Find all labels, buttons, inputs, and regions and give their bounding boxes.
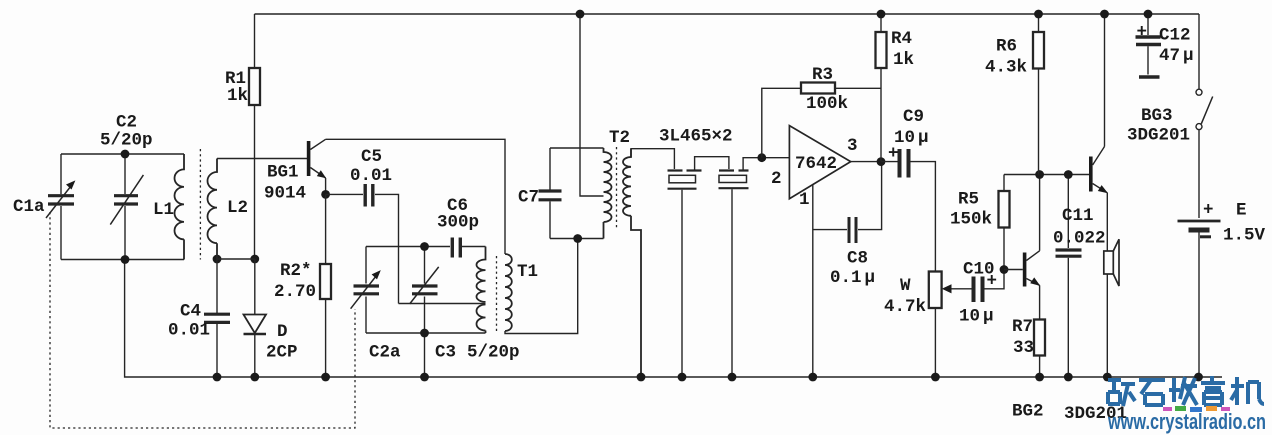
svg-text:0.01: 0.01 bbox=[168, 321, 210, 341]
wire: tank1 top bbox=[61, 153, 184, 155]
svg-text:3DG201: 3DG201 bbox=[1127, 126, 1190, 146]
node: amp output bbox=[877, 157, 886, 166]
svg-text:T2: T2 bbox=[609, 128, 630, 148]
node: loop bottom junction bbox=[573, 234, 582, 243]
node: filter2 ground bbox=[728, 373, 737, 382]
node: C11 ground bbox=[1064, 373, 1073, 382]
svg-text:0.1μ: 0.1μ bbox=[830, 268, 875, 288]
node: C3 top bbox=[420, 242, 429, 251]
svg-text:3L465×2: 3L465×2 bbox=[659, 127, 733, 147]
transformer T2 secondary bbox=[623, 149, 641, 377]
node: battery ground bbox=[1194, 373, 1203, 382]
svg-text:100k: 100k bbox=[806, 94, 848, 114]
svg-text:0.022: 0.022 bbox=[1053, 229, 1106, 249]
svg-text:+: + bbox=[1137, 23, 1148, 43]
svg-text:W: W bbox=[900, 276, 911, 296]
node: R5/C10/base junction bbox=[1000, 265, 1009, 274]
wire: T1 secondary bottom to C7 node bbox=[505, 239, 578, 334]
node: R4 top rail bbox=[877, 10, 886, 19]
node: R7 ground bbox=[1035, 373, 1044, 382]
ceramic filter 2 (3L465) bbox=[719, 171, 749, 378]
transformer T1 secondary bbox=[505, 254, 512, 331]
capacitor C6 300p bbox=[452, 238, 485, 258]
wire: top rail tap to T2 primary bbox=[580, 14, 604, 196]
svg-text:+: + bbox=[1203, 201, 1214, 221]
pin 3 wire: amp output bbox=[851, 161, 881, 163]
svg-text:+: + bbox=[888, 144, 899, 164]
svg-text:L2: L2 bbox=[227, 198, 248, 218]
svg-text:2: 2 bbox=[771, 169, 782, 189]
wire: T2 secondary top to filter 1 bbox=[631, 149, 674, 169]
svg-text:1k: 1k bbox=[893, 50, 914, 70]
node: C4 ground bbox=[213, 373, 222, 382]
svg-text:0.01: 0.01 bbox=[350, 166, 392, 186]
speaker bbox=[1104, 239, 1119, 377]
battery E 1.5V bbox=[1178, 221, 1221, 377]
resistor R3 100k with feedback wire bbox=[762, 83, 881, 158]
resistor R1 bbox=[249, 14, 260, 259]
resistor R4 1k bbox=[876, 14, 887, 162]
svg-text:R5: R5 bbox=[958, 190, 979, 210]
svg-text:4.3k: 4.3k bbox=[985, 58, 1027, 78]
svg-text:C7: C7 bbox=[518, 188, 539, 208]
wire: tank1 bottom bbox=[61, 259, 184, 261]
wire: filter1 out to filter2 in bbox=[695, 157, 729, 170]
node: W ground bbox=[931, 373, 940, 382]
svg-text:C3: C3 bbox=[435, 343, 456, 363]
svg-text:10μ: 10μ bbox=[959, 307, 994, 327]
capacitor C3 (trimmer 5/20p) bbox=[410, 247, 439, 378]
watermark char 1 (kuang) bbox=[1108, 380, 1135, 406]
node: C3 bottom bbox=[420, 329, 429, 338]
svg-text:C11: C11 bbox=[1062, 206, 1094, 226]
wire: filter2 out to amp input node bbox=[743, 158, 789, 170]
transformer T1 primary bbox=[477, 247, 486, 334]
capacitor C10 10u (electrolytic) bbox=[974, 270, 1005, 303]
node: C2 bottom bbox=[121, 255, 130, 264]
svg-text:3: 3 bbox=[847, 136, 858, 156]
node: amp input bbox=[757, 153, 766, 162]
wire: R5 top to BG3 base bbox=[1004, 174, 1089, 176]
transistor BG3 3DG201 bbox=[1089, 14, 1108, 251]
watermark char 5 (ji) bbox=[1231, 377, 1264, 405]
inductor L1 bbox=[175, 154, 185, 260]
svg-text:R6: R6 bbox=[996, 37, 1017, 57]
node: filter1 ground bbox=[678, 373, 687, 382]
capacitor C8 0.1u bbox=[813, 163, 882, 243]
capacitor C2a (variable) bbox=[351, 247, 381, 334]
ceramic filter 1 (3L465) bbox=[668, 171, 702, 378]
svg-text:C1a: C1a bbox=[13, 197, 45, 217]
svg-text:C2: C2 bbox=[116, 113, 137, 133]
svg-text:300p: 300p bbox=[437, 213, 479, 233]
wire: C7/T2 loop bottom bbox=[550, 238, 604, 240]
node: L2 bottom / R1 bottom junction bbox=[213, 255, 260, 264]
watermark tiny colored marks bbox=[1163, 406, 1230, 412]
node: R6/BG2 collector bbox=[1035, 170, 1044, 179]
inductor L2 bbox=[208, 159, 218, 260]
svg-text:C8: C8 bbox=[847, 249, 868, 269]
svg-text:BG1: BG1 bbox=[267, 163, 299, 183]
core: L1/L2 dashed bbox=[199, 149, 201, 260]
node: D ground bbox=[250, 373, 259, 382]
WATERMARK bbox=[1108, 376, 1264, 406]
svg-text:1: 1 bbox=[799, 190, 810, 210]
node: R6 top rail bbox=[1034, 10, 1043, 19]
transistor BG1 9014 bbox=[307, 139, 326, 194]
node: top rail T2 feed bbox=[576, 10, 585, 19]
svg-text:7642: 7642 bbox=[795, 154, 837, 174]
svg-text:4.7k: 4.7k bbox=[884, 297, 926, 317]
resistor R7 33 bbox=[1034, 320, 1045, 378]
svg-text:BG3: BG3 bbox=[1141, 106, 1173, 126]
svg-text:C5: C5 bbox=[361, 147, 382, 167]
svg-text:D: D bbox=[277, 322, 288, 342]
diode D 2CP bbox=[244, 259, 267, 377]
svg-text:E: E bbox=[1236, 201, 1247, 221]
wire: bottom ground rail bbox=[125, 260, 1222, 378]
node: BG1 emitter junction bbox=[321, 190, 330, 199]
dashed gang line C1a-C2a bbox=[50, 212, 355, 428]
node: C3 ground bbox=[420, 373, 429, 382]
wire: L2 bottom to diode node bbox=[217, 258, 255, 260]
svg-text:150k: 150k bbox=[950, 210, 992, 230]
node: C12 top rail bbox=[1144, 10, 1153, 19]
svg-text:9014: 9014 bbox=[264, 184, 306, 204]
wire: C5 tap into T1 bbox=[399, 303, 486, 305]
svg-text:5/20p: 5/20p bbox=[100, 131, 153, 151]
svg-text:C9: C9 bbox=[903, 107, 924, 127]
capacitor C12 47u (electrolytic) bbox=[1136, 14, 1162, 77]
wire: tank2 top rail bbox=[366, 246, 450, 248]
transformer T2 primary bbox=[604, 148, 612, 239]
resistor R2* bbox=[320, 194, 331, 377]
capacitor C9 10u (electrolytic) bbox=[881, 149, 935, 272]
svg-text:10μ: 10μ bbox=[894, 128, 929, 148]
svg-text:R2*: R2* bbox=[280, 261, 312, 281]
svg-text:33: 33 bbox=[1013, 338, 1034, 358]
op-amp U1 7642 bbox=[789, 126, 850, 199]
node: pin1 ground bbox=[808, 373, 817, 382]
svg-text:C12: C12 bbox=[1159, 26, 1191, 46]
resistor R6 4.3k bbox=[1033, 14, 1044, 175]
svg-text:2.70: 2.70 bbox=[274, 282, 316, 302]
capacitor C2 (trimmer 5/20p) bbox=[110, 154, 143, 260]
wire: top supply rail bbox=[255, 13, 1200, 15]
svg-text:R7: R7 bbox=[1012, 317, 1033, 337]
svg-text:R3: R3 bbox=[812, 65, 833, 85]
node: T2 secondary ground bbox=[637, 373, 646, 382]
watermark char 2 (shi) bbox=[1139, 380, 1165, 405]
svg-text:BG2: BG2 bbox=[1012, 402, 1044, 422]
potentiometer W 4.7k bbox=[929, 272, 972, 378]
node: speaker ground bbox=[1103, 373, 1112, 382]
node: BG3 collector rail bbox=[1100, 10, 1109, 19]
svg-text:+: + bbox=[987, 272, 998, 292]
svg-text:1.5V: 1.5V bbox=[1223, 226, 1266, 246]
watermark char 4 (yin) bbox=[1201, 376, 1225, 405]
svg-text:L1: L1 bbox=[153, 200, 174, 220]
svg-text:www.crystalradio.cn: www.crystalradio.cn bbox=[1107, 409, 1266, 434]
capacitor C5 0.01 bbox=[326, 184, 399, 304]
wire: tank2 bottom rail bbox=[366, 332, 486, 334]
wire: BG2 base bbox=[1004, 269, 1023, 271]
svg-text:2CP: 2CP bbox=[266, 343, 298, 363]
svg-text:5/20p: 5/20p bbox=[467, 343, 520, 363]
wire: base line L2 top to BG1 bbox=[217, 158, 307, 160]
svg-text:47μ: 47μ bbox=[1159, 46, 1194, 66]
capacitor C4 0.01 bbox=[204, 259, 230, 377]
watermark char 3 (shou) bbox=[1169, 377, 1197, 405]
capacitor C11 0.022 bbox=[1056, 175, 1082, 378]
wire: C7/T2 loop top bbox=[550, 147, 604, 149]
resistor R5 150k bbox=[999, 175, 1010, 270]
capacitor C1a (variable) bbox=[46, 154, 75, 260]
node: C11 top bbox=[1064, 170, 1073, 179]
wire: BG1 collector to T1 secondary top bbox=[326, 139, 505, 254]
svg-text:1k: 1k bbox=[227, 86, 248, 106]
svg-text:C2a: C2a bbox=[369, 343, 401, 363]
core: T1 dashed bbox=[496, 256, 498, 333]
capacitor C7 bbox=[539, 148, 562, 239]
core: T2 dashed bbox=[616, 147, 618, 228]
pin 1 wire: amp to ground bbox=[812, 185, 814, 378]
svg-text:R4: R4 bbox=[891, 29, 912, 49]
svg-text:T1: T1 bbox=[517, 262, 538, 282]
svg-text:C4: C4 bbox=[180, 302, 201, 322]
node: C2 top bbox=[121, 150, 130, 159]
switch bbox=[1196, 14, 1213, 218]
transistor BG2 3DG201 bbox=[1023, 175, 1041, 320]
node: R2 ground bbox=[321, 373, 330, 382]
